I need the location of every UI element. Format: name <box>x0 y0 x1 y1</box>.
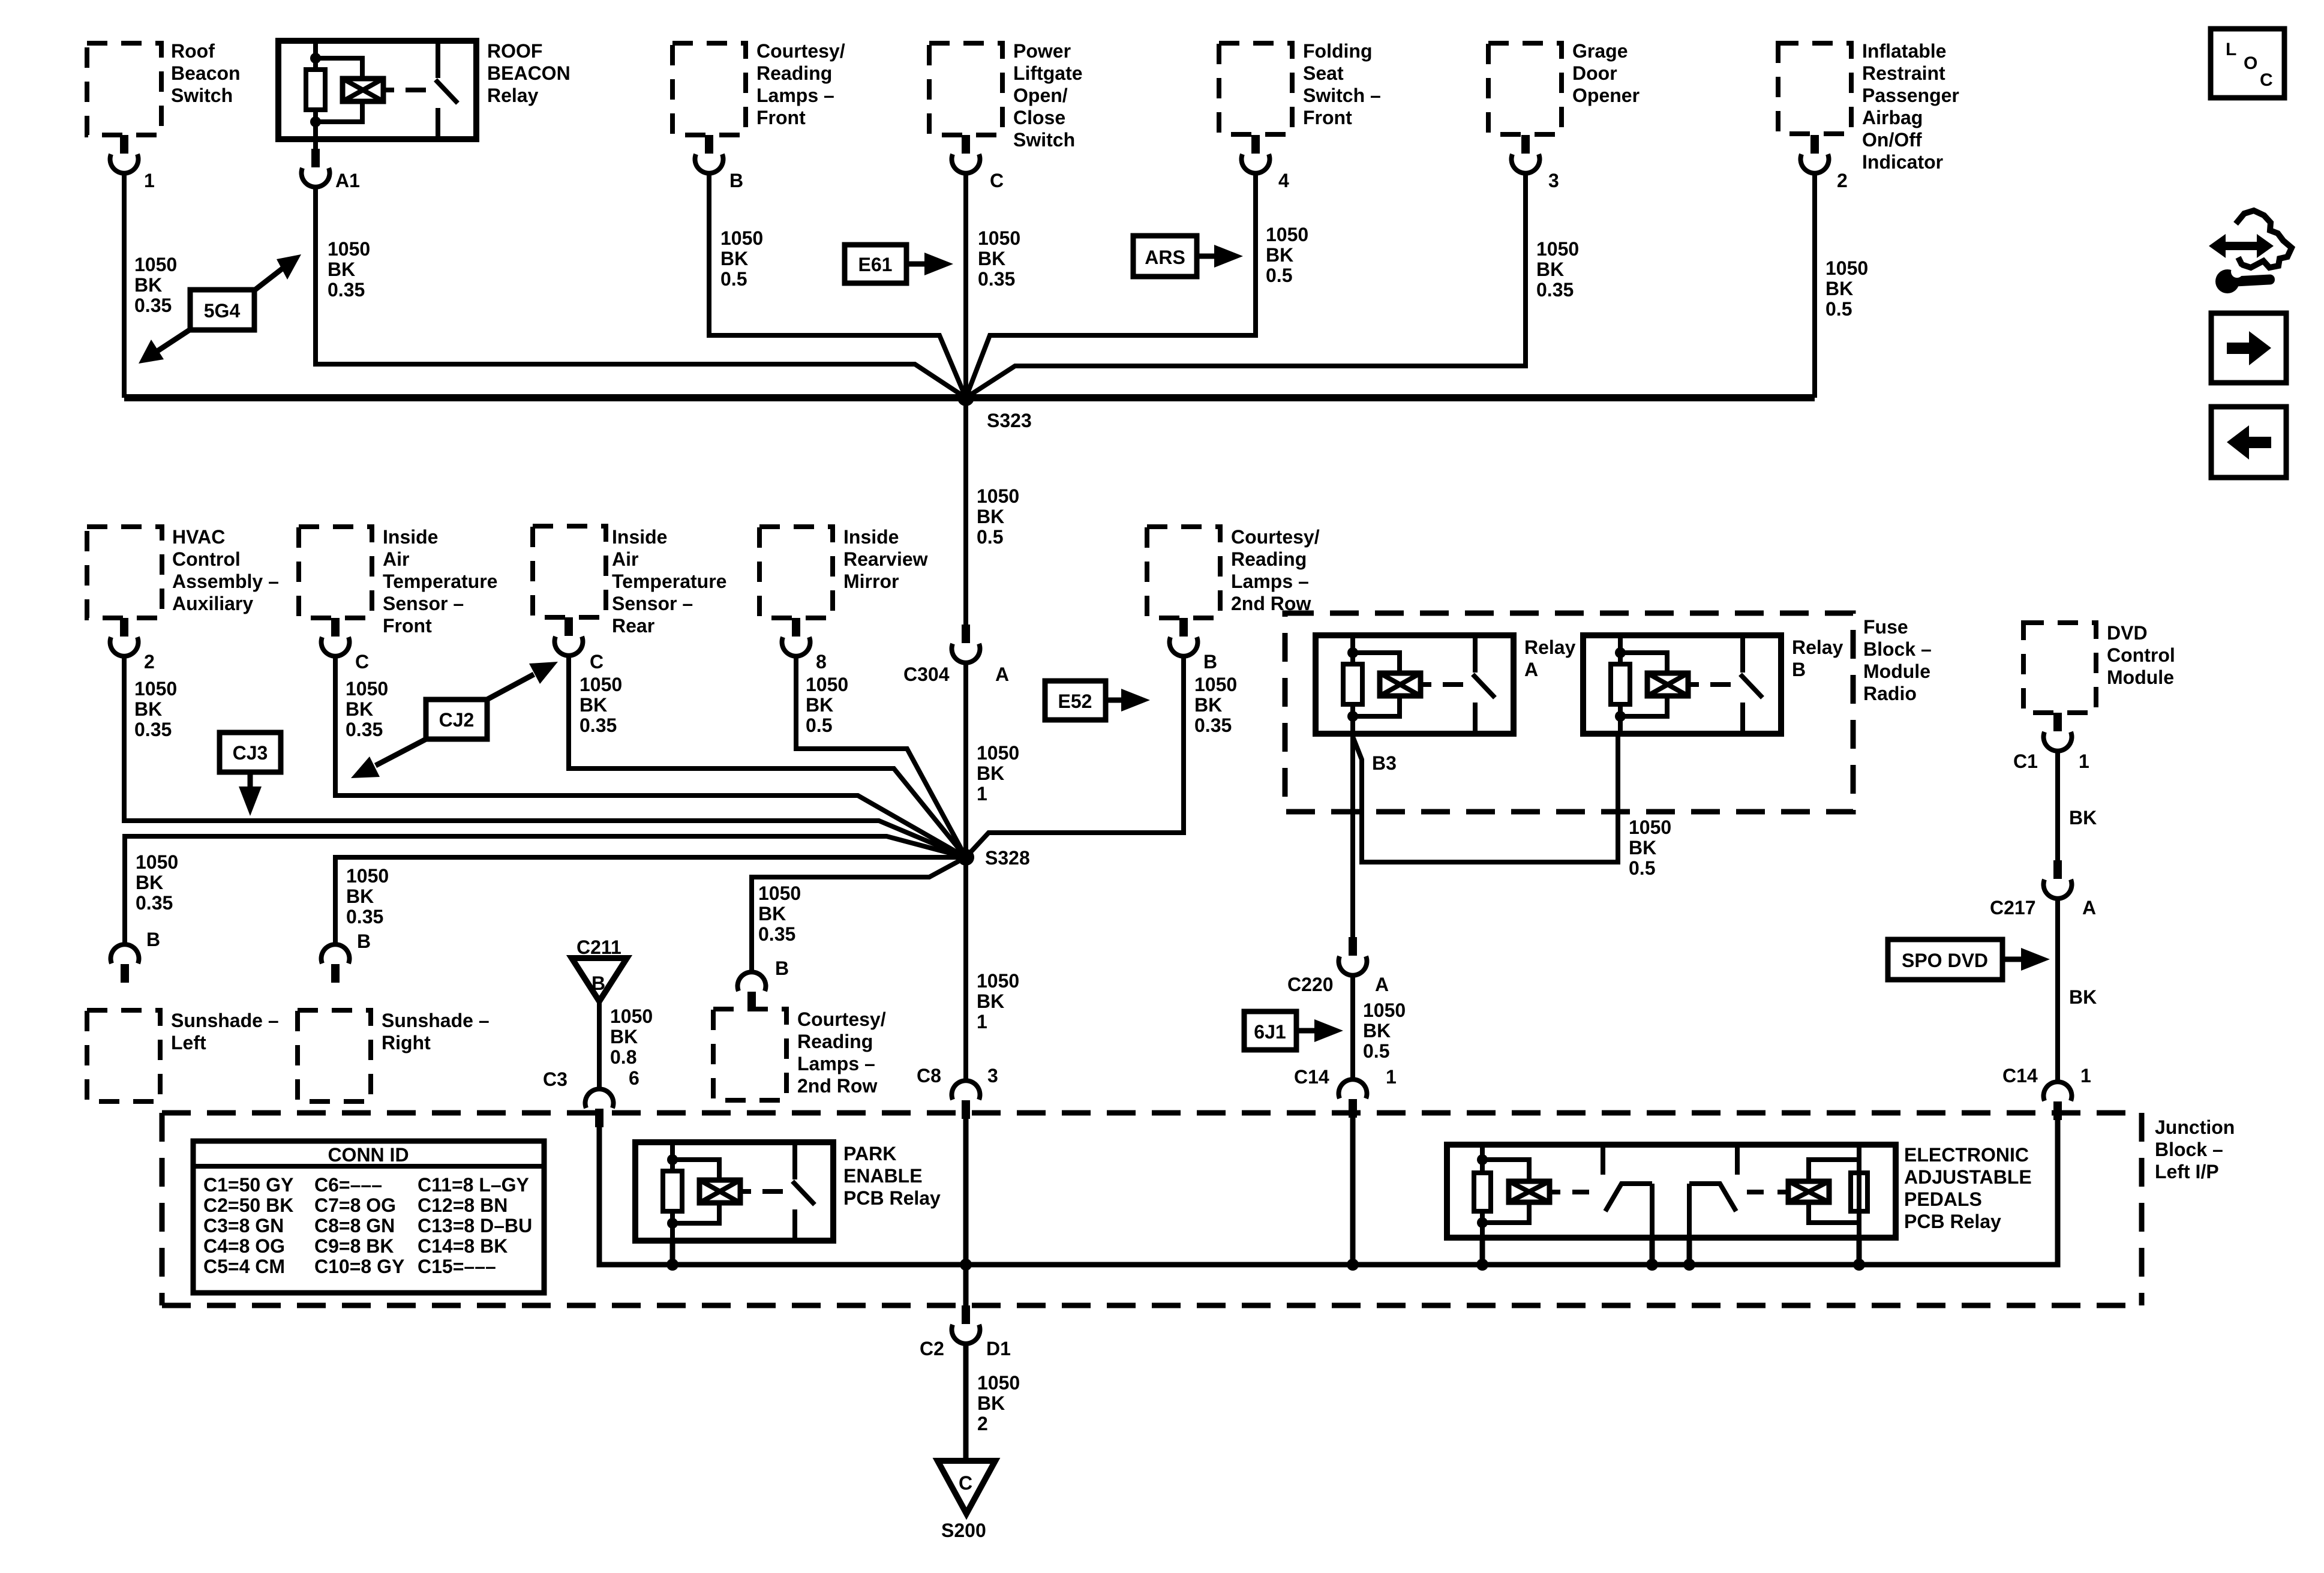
svg-text:Rearview: Rearview <box>843 548 928 570</box>
connector pin 1 roof beacon switch <box>110 135 139 173</box>
inside air temp rear box <box>533 526 606 617</box>
svg-text:0.35: 0.35 <box>978 268 1015 290</box>
svg-text:Sunshade –: Sunshade – <box>171 1010 279 1031</box>
svg-text:BK: BK <box>136 872 163 893</box>
svg-text:BK: BK <box>977 990 1004 1012</box>
svg-text:C3=8 GN: C3=8 GN <box>203 1215 284 1236</box>
svg-text:C304: C304 <box>903 664 950 685</box>
right contact <box>1735 1145 1740 1175</box>
svg-text:0.35: 0.35 <box>1536 279 1574 301</box>
svg-text:Relay: Relay <box>1792 637 1843 658</box>
svg-text:0.8: 0.8 <box>610 1046 636 1068</box>
left contact <box>1601 1145 1605 1175</box>
svg-text:0.5: 0.5 <box>806 715 832 736</box>
wire rearview to S328 <box>796 655 966 857</box>
svg-text:BK: BK <box>2069 986 2097 1008</box>
connector pin C front sensor <box>322 618 350 656</box>
relay B <box>1583 635 1781 734</box>
svg-text:0.35: 0.35 <box>758 923 795 945</box>
svg-text:C3: C3 <box>543 1068 568 1090</box>
svg-text:Block –: Block – <box>2155 1139 2223 1160</box>
svg-text:Sensor –: Sensor – <box>383 593 464 614</box>
svg-text:PARK: PARK <box>843 1143 896 1164</box>
svg-text:ENABLE: ENABLE <box>843 1165 923 1187</box>
sunshade left box <box>87 1010 160 1101</box>
svg-text:1050: 1050 <box>1536 238 1579 260</box>
svg-text:1050: 1050 <box>1825 257 1868 279</box>
svg-text:C1=50 GY: C1=50 GY <box>203 1174 293 1196</box>
connector pin 3 garage door <box>1512 135 1540 173</box>
connector pin 2 inflatable <box>1801 135 1829 173</box>
connector C14 right <box>2044 1082 2072 1120</box>
svg-text:1: 1 <box>144 170 155 191</box>
svg-text:1050: 1050 <box>758 882 801 904</box>
svg-text:Liftgate: Liftgate <box>1013 62 1083 84</box>
svg-text:BK: BK <box>978 248 1005 269</box>
svg-text:Mirror: Mirror <box>843 571 899 592</box>
wire C8 through junction block to C2 <box>963 1116 969 1305</box>
courtesy 2nd row lower box <box>713 1009 786 1100</box>
svg-text:PCB Relay: PCB Relay <box>843 1187 941 1209</box>
svg-text:Junction: Junction <box>2155 1116 2235 1138</box>
svg-text:1050: 1050 <box>1363 999 1406 1021</box>
svg-text:C13=8 D–BU: C13=8 D–BU <box>418 1215 532 1236</box>
svg-text:B: B <box>357 930 371 952</box>
svg-text:C9=8 BK: C9=8 BK <box>314 1235 394 1257</box>
svg-text:Lamps –: Lamps – <box>1231 571 1309 592</box>
svg-text:Sunshade –: Sunshade – <box>382 1010 490 1031</box>
svg-text:0.5: 0.5 <box>1363 1040 1389 1062</box>
svg-text:0.5: 0.5 <box>977 526 1003 548</box>
svg-text:BK: BK <box>720 248 748 269</box>
connector pin C1 1 dvd <box>2044 713 2072 751</box>
wire park relay pin to bus <box>670 1241 675 1265</box>
svg-text:BK: BK <box>346 885 374 907</box>
svg-text:0.5: 0.5 <box>1266 265 1292 286</box>
connectors top row <box>110 135 1829 187</box>
svg-text:0.35: 0.35 <box>346 906 383 927</box>
svg-text:Indicator: Indicator <box>1862 151 1943 173</box>
connector pin 2 HVAC <box>110 618 139 656</box>
svg-text:BK: BK <box>977 1392 1005 1414</box>
svg-text:CJ3: CJ3 <box>233 742 268 764</box>
wire rear sensor to S328 <box>569 655 966 857</box>
connector C217 A <box>2044 860 2072 899</box>
svg-text:Beacon: Beacon <box>171 62 241 84</box>
svg-text:BK: BK <box>134 698 162 720</box>
svg-text:DVD: DVD <box>2107 622 2148 644</box>
label 1050 BK 1 above C8 <box>977 970 1019 1032</box>
svg-text:C2=50 BK: C2=50 BK <box>203 1194 293 1216</box>
svg-text:BK: BK <box>328 259 355 280</box>
sunshade right box <box>298 1010 371 1101</box>
HVAC control assembly box <box>87 527 162 618</box>
svg-text:1050: 1050 <box>1194 674 1237 695</box>
5G4 reference box with arrows <box>139 254 301 364</box>
svg-text:Open/: Open/ <box>1013 85 1068 106</box>
svg-text:1050: 1050 <box>1629 816 1671 838</box>
connector pin B sunshade left <box>111 944 139 983</box>
courtesy/reading lamps front box <box>672 43 746 135</box>
relay A <box>1316 635 1514 734</box>
svg-text:6: 6 <box>629 1067 639 1089</box>
svg-text:Switch –: Switch – <box>1303 85 1381 106</box>
connector pin C rear sensor <box>555 617 583 656</box>
svg-text:Air: Air <box>612 548 638 570</box>
inside rearview mirror box <box>759 527 833 618</box>
connector pin B courtesy front <box>695 135 723 173</box>
svg-text:0.35: 0.35 <box>134 719 172 740</box>
connector pin A1 roof beacon relay <box>302 149 330 187</box>
svg-text:Control: Control <box>172 548 241 570</box>
svg-text:Left I/P: Left I/P <box>2155 1161 2219 1182</box>
svg-text:ADJUSTABLE: ADJUSTABLE <box>1904 1166 2032 1188</box>
svg-text:1050: 1050 <box>977 742 1019 764</box>
svg-text:B: B <box>591 972 605 994</box>
svg-text:1050: 1050 <box>580 674 622 695</box>
svg-text:Temperature: Temperature <box>383 571 497 592</box>
svg-text:Reading: Reading <box>756 62 832 84</box>
garage door opener box <box>1488 43 1562 134</box>
svg-text:A: A <box>2082 897 2096 918</box>
svg-text:C14: C14 <box>2002 1065 2038 1086</box>
svg-text:1050: 1050 <box>978 227 1020 249</box>
svg-text:1: 1 <box>1386 1066 1397 1088</box>
park enable PCB relay <box>635 1142 833 1241</box>
wire C8 from S328 down <box>963 857 968 1082</box>
svg-text:Reading: Reading <box>797 1031 873 1052</box>
svg-text:Courtesy/: Courtesy/ <box>756 40 845 62</box>
svg-text:B: B <box>775 957 789 979</box>
svg-text:ROOF: ROOF <box>487 40 542 62</box>
connector pin B courtesy 2nd row upper <box>1170 618 1198 656</box>
svg-text:1050: 1050 <box>328 238 370 260</box>
left coil branch <box>1480 1145 1485 1238</box>
wire sunshade right to S328 <box>335 857 966 945</box>
svg-text:C211: C211 <box>577 936 621 958</box>
svg-text:1050: 1050 <box>1266 224 1308 245</box>
svg-text:Auxiliary: Auxiliary <box>172 593 253 614</box>
svg-text:On/Off: On/Off <box>1862 129 1922 151</box>
svg-text:5G4: 5G4 <box>204 300 241 322</box>
LOC box icon <box>2211 29 2284 98</box>
junction block dashed outline <box>162 1110 2142 1116</box>
svg-text:Assembly –: Assembly – <box>172 571 279 592</box>
main ground wire through S323 <box>124 394 1815 401</box>
wire A1 to S323 <box>316 186 966 398</box>
connector C3 <box>585 1089 614 1127</box>
svg-text:Seat: Seat <box>1303 62 1344 84</box>
svg-text:C1: C1 <box>2013 751 2038 772</box>
6J1 reference box with arrow <box>1244 1011 1343 1050</box>
wire labels top row <box>134 224 1868 320</box>
wire front sensor to S328 <box>335 655 966 857</box>
svg-text:Lamps –: Lamps – <box>756 85 834 106</box>
wire B3 from relay A down to C220 <box>1350 734 1355 939</box>
svg-text:C: C <box>2260 70 2273 90</box>
svg-text:3: 3 <box>987 1065 998 1086</box>
svg-text:S323: S323 <box>987 410 1032 431</box>
electronic adjustable pedals PCB relay <box>1447 1145 1896 1238</box>
wire courtesy front B to S323 <box>709 172 966 398</box>
wire roof beacon switch to S323 main line <box>122 172 127 398</box>
wire folding seat 4 to S323 <box>966 172 1256 398</box>
right coil branch <box>1788 1181 1829 1202</box>
fuse block module radio dashed box <box>1285 613 1853 812</box>
svg-text:ELECTRONIC: ELECTRONIC <box>1904 1144 2029 1166</box>
wire sunshade left to S328 <box>125 836 966 945</box>
svg-text:BK: BK <box>610 1026 638 1047</box>
EAP relay pins to bus <box>1480 1238 1485 1265</box>
svg-text:1050: 1050 <box>610 1005 653 1027</box>
svg-text:C220: C220 <box>1287 974 1334 995</box>
svg-text:Restraint: Restraint <box>1862 62 1945 84</box>
ground bus inside junction block <box>599 1262 2058 1268</box>
svg-text:1: 1 <box>2080 1065 2091 1086</box>
svg-text:BK: BK <box>1825 278 1853 299</box>
svg-text:C14=8 BK: C14=8 BK <box>418 1235 508 1257</box>
svg-text:Rear: Rear <box>612 615 654 637</box>
svg-text:A1: A1 <box>335 170 360 191</box>
svg-text:PEDALS: PEDALS <box>1904 1188 1982 1210</box>
svg-text:B3: B3 <box>1372 752 1397 774</box>
CJ2 reference box with arrows <box>351 662 558 778</box>
svg-text:Opener: Opener <box>1572 85 1640 106</box>
svg-text:A: A <box>1375 974 1389 995</box>
svg-text:0.35: 0.35 <box>134 295 172 316</box>
svg-text:Courtesy/: Courtesy/ <box>797 1008 886 1030</box>
svg-text:1050: 1050 <box>977 1372 1020 1394</box>
ARS reference box with arrow <box>1133 236 1243 277</box>
svg-text:1050: 1050 <box>346 678 388 700</box>
connector C2 D1 <box>952 1305 980 1344</box>
svg-text:2: 2 <box>144 651 155 673</box>
svg-text:Switch: Switch <box>1013 129 1075 151</box>
svg-text:SPO DVD: SPO DVD <box>1902 950 1988 971</box>
connector pin 8 rearview <box>782 618 810 656</box>
connector C220 A <box>1339 937 1367 975</box>
svg-text:0.35: 0.35 <box>136 892 173 914</box>
svg-text:Reading: Reading <box>1231 548 1307 570</box>
wire S323 down to C304 <box>963 398 968 625</box>
wire C14 right down to bus <box>1859 1117 2058 1265</box>
svg-text:E52: E52 <box>1058 691 1092 712</box>
svg-text:1050: 1050 <box>134 254 177 275</box>
wire inflatable 2 to S323 main line <box>1812 172 1817 398</box>
svg-text:1: 1 <box>977 783 987 804</box>
svg-text:BK: BK <box>977 506 1004 527</box>
inflatable restraint box <box>1778 43 1851 134</box>
wrench navigation icon <box>2209 211 2292 293</box>
svg-text:B: B <box>1792 659 1806 680</box>
connector C304 A <box>952 625 980 663</box>
svg-text:B: B <box>1203 651 1217 673</box>
svg-text:A: A <box>1524 659 1538 680</box>
svg-text:C: C <box>959 1472 972 1494</box>
CONN ID table <box>193 1141 544 1293</box>
svg-text:2: 2 <box>977 1413 988 1434</box>
svg-text:Door: Door <box>1572 62 1617 84</box>
svg-text:4: 4 <box>1278 170 1289 191</box>
svg-text:1050: 1050 <box>806 674 848 695</box>
svg-text:BK: BK <box>1266 244 1293 266</box>
svg-text:C2: C2 <box>920 1338 944 1359</box>
svg-text:C217: C217 <box>1990 897 2036 918</box>
right arrow box icon <box>2211 313 2286 383</box>
svg-text:Airbag: Airbag <box>1862 107 1923 128</box>
svg-text:BK: BK <box>134 274 162 296</box>
svg-text:Power: Power <box>1013 40 1071 62</box>
connector pin C liftgate <box>952 135 980 173</box>
svg-text:C7=8 OG: C7=8 OG <box>314 1194 396 1216</box>
svg-text:C: C <box>990 170 1004 191</box>
SPO DVD reference box with arrow <box>1888 939 2050 980</box>
connector pin B courtesy lower <box>738 972 766 1010</box>
svg-text:CJ2: CJ2 <box>439 709 475 731</box>
svg-text:B: B <box>729 170 743 191</box>
wire liftgate C to S323 <box>963 172 968 398</box>
svg-text:Inside: Inside <box>383 526 438 548</box>
svg-text:S200: S200 <box>941 1520 986 1541</box>
svg-text:C4=8 OG: C4=8 OG <box>203 1235 285 1257</box>
svg-text:6J1: 6J1 <box>1254 1021 1286 1043</box>
svg-text:3: 3 <box>1548 170 1559 191</box>
svg-text:Control: Control <box>2107 644 2175 666</box>
svg-text:Fuse: Fuse <box>1863 616 1908 638</box>
svg-text:BK: BK <box>580 694 607 716</box>
svg-text:0.35: 0.35 <box>346 719 383 740</box>
svg-text:L: L <box>2226 40 2236 59</box>
wire relay B to B3 node <box>1353 734 1618 862</box>
svg-text:0.5: 0.5 <box>720 268 747 290</box>
svg-text:Switch: Switch <box>171 85 233 106</box>
svg-text:Passenger: Passenger <box>1862 85 1959 106</box>
svg-text:PCB Relay: PCB Relay <box>1904 1211 2001 1232</box>
svg-text:C15=–––: C15=––– <box>418 1256 496 1277</box>
svg-text:C: C <box>355 651 369 673</box>
svg-text:1050: 1050 <box>136 851 178 873</box>
wire courtesy lower to S328 <box>752 857 966 973</box>
svg-text:Inside: Inside <box>612 526 667 548</box>
svg-text:0.5: 0.5 <box>1629 857 1655 879</box>
svg-text:BK: BK <box>1363 1020 1391 1041</box>
svg-text:BK: BK <box>346 698 373 720</box>
wire C14 down to bus <box>1350 1115 1356 1265</box>
dvd control module box <box>2023 623 2096 713</box>
svg-text:Left: Left <box>171 1032 206 1053</box>
svg-text:Temperature: Temperature <box>612 571 726 592</box>
svg-text:C11=8 L–GY: C11=8 L–GY <box>418 1174 529 1196</box>
wire courtesy upper to S328 <box>966 655 1184 857</box>
svg-text:CONN ID: CONN ID <box>328 1144 409 1166</box>
roof beacon switch box <box>87 43 161 135</box>
svg-text:ARS: ARS <box>1145 247 1185 268</box>
label 1050 BK 0.5 below S323 <box>977 485 1019 548</box>
wire hvac to S328 <box>124 655 966 857</box>
svg-text:B: B <box>146 929 160 950</box>
connector pin 4 folding seat <box>1242 135 1270 173</box>
wire C217 to C14 right <box>2055 897 2060 1082</box>
svg-text:HVAC: HVAC <box>172 526 225 548</box>
svg-text:C12=8 BN: C12=8 BN <box>418 1194 508 1216</box>
svg-text:BK: BK <box>806 694 833 716</box>
svg-text:Folding: Folding <box>1303 40 1373 62</box>
svg-text:C5=4 CM: C5=4 CM <box>203 1256 285 1277</box>
svg-text:BK: BK <box>1629 837 1656 858</box>
wire C220 to C14 <box>1350 974 1355 1080</box>
S200 ground triangle C <box>938 1461 995 1514</box>
svg-text:2nd Row: 2nd Row <box>797 1075 877 1097</box>
svg-text:Radio: Radio <box>1863 683 1917 704</box>
svg-text:Right: Right <box>382 1032 431 1053</box>
label 1050 BK 0.5 relay B <box>1629 816 1671 879</box>
svg-text:1050: 1050 <box>977 485 1019 507</box>
svg-text:1: 1 <box>977 1011 987 1032</box>
svg-text:C6=–––: C6=––– <box>314 1174 382 1196</box>
C211 triangle connector B <box>572 936 627 1001</box>
svg-text:1: 1 <box>2079 751 2089 772</box>
svg-text:E61: E61 <box>858 254 893 275</box>
svg-text:C: C <box>590 651 603 673</box>
wire C304 down to S328 <box>963 662 968 857</box>
connector C8 <box>952 1080 980 1119</box>
svg-text:Roof: Roof <box>171 40 215 62</box>
svg-text:Front: Front <box>756 107 806 128</box>
svg-text:Courtesy/: Courtesy/ <box>1231 526 1320 548</box>
wires into S328 <box>124 655 1184 973</box>
svg-text:C14: C14 <box>1294 1066 1329 1088</box>
inside air temp front box <box>299 527 372 618</box>
svg-text:BK: BK <box>1536 259 1564 280</box>
splice S323 <box>957 389 974 406</box>
svg-text:Relay: Relay <box>487 85 539 106</box>
svg-text:0.35: 0.35 <box>580 715 617 736</box>
svg-text:Lamps –: Lamps – <box>797 1053 875 1074</box>
svg-text:D1: D1 <box>986 1338 1011 1359</box>
svg-text:Module: Module <box>1863 661 1930 682</box>
svg-text:C8=8 GN: C8=8 GN <box>314 1215 395 1236</box>
svg-text:Front: Front <box>1303 107 1352 128</box>
svg-text:1050: 1050 <box>134 678 177 700</box>
svg-text:Relay: Relay <box>1524 637 1576 658</box>
connector C14 left <box>1339 1079 1367 1118</box>
svg-text:1050: 1050 <box>720 227 763 249</box>
splice S328 <box>957 849 974 866</box>
svg-text:BK: BK <box>2069 807 2097 828</box>
wire C2 to S200 <box>963 1342 969 1464</box>
svg-text:BK: BK <box>758 903 786 924</box>
svg-text:BK: BK <box>977 763 1004 784</box>
svg-text:Inside: Inside <box>843 526 899 548</box>
wire C1 to C217 <box>2055 749 2060 860</box>
svg-text:Block –: Block – <box>1863 638 1932 660</box>
component labels top row <box>171 40 1959 173</box>
svg-text:Air: Air <box>383 548 409 570</box>
left arrow box icon <box>2211 407 2286 478</box>
svg-text:BEACON: BEACON <box>487 62 571 84</box>
label 1050 BK 1 <box>977 742 1019 804</box>
CJ3 reference box with down arrow <box>220 733 281 816</box>
wire C3 into junction block to bus <box>599 1124 672 1265</box>
svg-text:S328: S328 <box>985 847 1030 869</box>
connector pin B sunshade right <box>322 944 350 983</box>
svg-text:C8: C8 <box>917 1065 941 1086</box>
svg-text:Grage: Grage <box>1572 40 1628 62</box>
svg-text:0.35: 0.35 <box>1194 715 1232 736</box>
svg-text:A: A <box>995 664 1009 685</box>
wire C211 to C3 <box>597 1001 602 1091</box>
svg-text:Front: Front <box>383 615 432 637</box>
